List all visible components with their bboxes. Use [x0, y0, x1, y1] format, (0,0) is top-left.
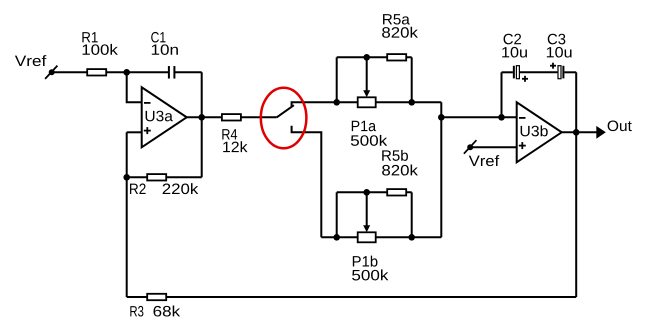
junction corner to U3b: [438, 114, 445, 121]
wire C3 right lead: [564, 71, 576, 73]
label R5a refdes: [383, 14, 410, 24]
label C2 refdes: [504, 34, 521, 45]
label R2 refdes: [130, 184, 146, 194]
junction U3b output node: [573, 129, 580, 136]
wire bottom rail through R3: [127, 296, 577, 298]
label R3 value 68k: [153, 306, 180, 317]
wire P1a right vertical: [411, 57, 413, 102]
resistor R1 body: [87, 69, 106, 75]
label R1 value 100k: [83, 44, 118, 55]
P1a wiper arrowhead: [363, 90, 370, 97]
wire R2 rail: [127, 176, 202, 178]
resistor R2 body: [147, 174, 166, 180]
label P1b value 500k: [352, 269, 388, 280]
resistor R4 body: [222, 114, 241, 120]
wire C2 to C3 middle lead: [520, 71, 557, 73]
op-amp U3b: [517, 102, 562, 162]
label C2 value 10u: [502, 47, 527, 58]
resistor R5b body: [387, 189, 406, 195]
junction U3a non-inverting / R2 node: [123, 174, 130, 181]
label C1 value 10n: [152, 44, 178, 55]
wire P1b top rail (R5b rail): [337, 191, 412, 193]
wire to U3b inverting input: [441, 116, 516, 118]
wire C1 right plate lead: [174, 71, 201, 73]
label C1 refdes: [151, 32, 165, 43]
junction P1a right: [408, 99, 415, 106]
wire left vertical to bottom rail: [126, 132, 128, 297]
output arrow Out: [596, 126, 606, 139]
wire P1a left vertical: [336, 57, 338, 102]
junction P1a wiper tap: [363, 54, 370, 61]
junction U3a output node: [198, 114, 205, 121]
wire U3b output to Out arrow: [562, 131, 597, 133]
op-amp U3a: [142, 87, 187, 147]
wire C2 left lead: [502, 71, 513, 73]
input marker Vref left: [45, 66, 57, 79]
label C3 refdes: [548, 34, 566, 45]
label P1a refdes: [352, 121, 376, 131]
wire node A down to U3a inverting input: [127, 72, 142, 102]
wire P1b bottom rail: [321, 236, 441, 238]
wire P1b left vertical: [336, 192, 338, 237]
net label Out: [608, 121, 632, 132]
switch SW1 bottom throw contact and wire down to P1b network: [292, 126, 322, 238]
label P1a value 500k: [351, 135, 387, 146]
label U3a refdes: [146, 111, 173, 122]
wire right vertical C3 to U3b output to bottom rail: [575, 72, 577, 297]
switch SW1 top throw contact and wire to P1a network: [292, 102, 337, 107]
label R5a value 820k: [382, 27, 418, 38]
label R5b value 820k: [382, 165, 418, 176]
label R4 value 12k: [223, 141, 247, 152]
capacitor C1 plates: [169, 66, 175, 79]
label R4 refdes: [222, 129, 237, 139]
label C3 value 10u: [547, 47, 572, 58]
wire Vref input to R1 to C1 left plate (node A rail): [52, 71, 169, 73]
potentiometer P1a body: [358, 97, 376, 107]
wire C2 branch vertical: [501, 72, 503, 117]
label R2 value 220k: [163, 183, 199, 194]
input marker Vref right: [464, 140, 477, 154]
highlight ellipse around switch: [261, 88, 307, 148]
junction P1b left: [333, 234, 340, 241]
label R3 refdes: [130, 306, 143, 317]
junction P1b right: [408, 234, 415, 241]
junction P1b wiper tap: [363, 189, 370, 196]
label R5b refdes: [382, 150, 408, 161]
resistor R3 body: [147, 294, 166, 300]
net label Vref (left): [15, 55, 46, 66]
wire U3a output through R4 to switch common: [187, 116, 277, 118]
label U3b refdes: [521, 125, 548, 136]
junction P1a left: [333, 99, 340, 106]
net label Vref (right): [469, 155, 499, 166]
wire P1b wiper stem: [366, 192, 368, 226]
junction node A (R1/C1/U3a inverting): [123, 69, 130, 76]
wire P1b right vertical: [411, 192, 413, 237]
wire U3a non-inverting input stub: [127, 131, 142, 133]
label P1b refdes: [353, 256, 378, 267]
resistor R5a body: [387, 54, 406, 60]
potentiometer P1b body: [358, 232, 376, 242]
label R1 refdes: [82, 32, 97, 42]
capacitor C2 (polarized): [514, 66, 528, 82]
wire P1a top rail (R5a rail): [337, 56, 412, 58]
junction C2 branch: [498, 114, 505, 121]
wire P1a bottom rail: [337, 101, 442, 103]
wire corner vertical joining P1a rail, U3b input and P1b rail: [440, 102, 442, 237]
capacitor C3 (polarized): [550, 63, 563, 79]
wire P1a wiper stem: [366, 57, 368, 91]
switch SW1 lever: [277, 105, 294, 117]
wire feedback vertical C1 to U3a output to R2 right: [201, 72, 203, 177]
P1b wiper arrowhead: [363, 225, 370, 232]
wire Vref marker to U3b non-inverting input: [470, 146, 517, 148]
